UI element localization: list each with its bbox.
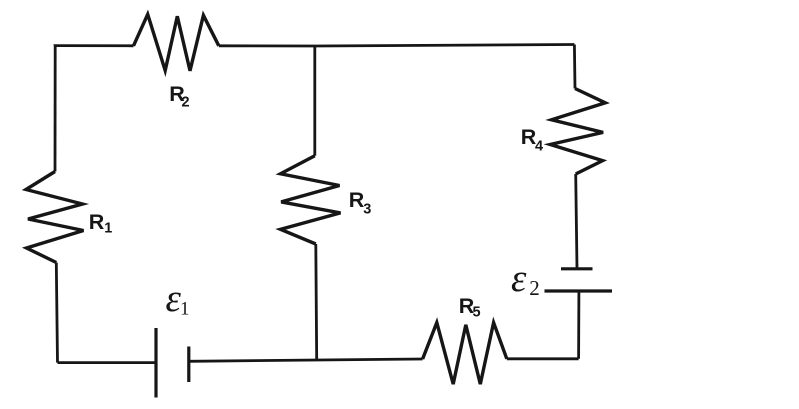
battery E1 short plate (negative) (187, 347, 190, 383)
battery E2 short plate (negative) (561, 267, 593, 270)
wire: right vertical segment from battery E2 up to R4 (576, 174, 577, 269)
wire: bottom-left horizontal segment to battery E1 (58, 361, 157, 364)
wire: middle vertical segment from R3 down to node C on bottom wire (314, 244, 318, 361)
svg-text:2: 2 (529, 276, 540, 300)
resistor R3 (281, 156, 341, 244)
svg-text:R3: R3 (349, 188, 372, 218)
svg-text:R1: R1 (89, 210, 113, 237)
svg-text:R2: R2 (169, 82, 189, 111)
svg-text:1: 1 (180, 299, 190, 320)
wire: bottom-right horizontal segment from R5 to bottom-right corner (507, 357, 579, 360)
resistor R1 (26, 172, 84, 263)
resistor R4 (550, 89, 605, 175)
svg-text:R4: R4 (521, 125, 543, 155)
wire: left vertical segment (top-left corner down to R1) (54, 46, 57, 172)
resistor R2 (134, 14, 219, 71)
svg-text:ε: ε (511, 257, 527, 300)
wire: middle vertical segment from node B down to R3 (313, 46, 316, 156)
wire: right vertical segment from R4 up to top-right corner (573, 45, 576, 89)
wire: right vertical segment from bottom-right corner up to battery E2 (577, 293, 580, 359)
svg-text:R5: R5 (459, 294, 481, 321)
wire: left vertical segment (R1 down to bottom-left corner) (56, 263, 57, 363)
wire: bottom horizontal segment from battery E1 through node C to R5 (189, 359, 423, 361)
resistor R5 (423, 323, 507, 385)
wire: top horizontal segment from R2 to top-right corner, through node B (219, 45, 575, 47)
wire: top-left horizontal segment (node A to R2) (55, 46, 133, 47)
battery E2 long plate (positive) (545, 289, 613, 292)
battery E1 long plate (positive) (154, 328, 157, 398)
